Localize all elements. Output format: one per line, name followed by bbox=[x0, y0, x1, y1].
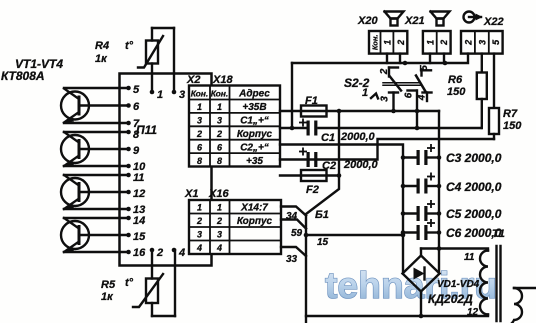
svg-text:2000,0: 2000,0 bbox=[343, 159, 379, 171]
capacitor C3 bbox=[403, 156, 439, 158]
pin 1 bbox=[150, 89, 163, 101]
svg-text:X20: X20 bbox=[357, 15, 378, 27]
pin 6 bbox=[126, 101, 140, 113]
svg-text:С2„+“: С2„+“ bbox=[240, 143, 269, 154]
wire F1 drop to bus B1 bbox=[306, 111, 339, 323]
junction dot contact6 on line A bbox=[415, 109, 420, 114]
svg-text:3: 3 bbox=[477, 40, 487, 45]
svg-text:8: 8 bbox=[133, 129, 140, 141]
svg-text:1: 1 bbox=[197, 102, 202, 112]
junction dot wire15 left bbox=[304, 233, 309, 238]
svg-text:X14:7: X14:7 bbox=[240, 203, 268, 214]
capacitor C1 bbox=[307, 121, 318, 136]
pin 4 bbox=[172, 247, 185, 259]
svg-text:С1„+“: С1„+“ bbox=[240, 116, 269, 127]
pin 12 bbox=[126, 188, 145, 200]
svg-text:2: 2 bbox=[216, 129, 222, 139]
junction dot S2 contact4 on line B bbox=[415, 126, 420, 131]
svg-text:1: 1 bbox=[425, 40, 435, 45]
svg-text:Кон.: Кон. bbox=[191, 89, 209, 99]
wires VT3 to pins 11,12,13 bbox=[64, 175, 129, 209]
capacitor C4 bbox=[403, 185, 439, 187]
pin 8 bbox=[126, 129, 140, 141]
pin 14 bbox=[126, 215, 145, 227]
svg-text:Корпус: Корпус bbox=[237, 216, 273, 227]
pin 2 bbox=[150, 247, 163, 259]
bottom wire to transformer pin 12 bbox=[306, 315, 488, 317]
svg-text:59: 59 bbox=[291, 228, 303, 239]
wire C2 line C bbox=[280, 139, 494, 160]
svg-text:2: 2 bbox=[156, 247, 163, 259]
plus sign C1 bbox=[299, 119, 307, 127]
pin 7 bbox=[126, 118, 140, 130]
wire +35 line D bbox=[280, 174, 339, 176]
svg-text:С1: С1 bbox=[321, 132, 335, 144]
svg-text:4: 4 bbox=[417, 94, 428, 101]
pin 5 bbox=[126, 84, 140, 96]
plus sign C5 bbox=[427, 200, 435, 208]
wire +35V line A bbox=[280, 110, 439, 112]
svg-text:5: 5 bbox=[419, 65, 430, 71]
svg-text:11: 11 bbox=[133, 172, 144, 184]
svg-text:Кон.: Кон. bbox=[371, 35, 380, 51]
svg-text:3: 3 bbox=[217, 230, 222, 240]
thermistor R4 bbox=[138, 28, 174, 92]
svg-text:12: 12 bbox=[133, 188, 145, 200]
svg-text:2000,0: 2000,0 bbox=[340, 131, 376, 143]
speaker icon X20 bbox=[385, 12, 404, 26]
svg-text:4: 4 bbox=[178, 247, 185, 259]
svg-text:3: 3 bbox=[197, 230, 202, 240]
svg-text:X18: X18 bbox=[212, 74, 233, 86]
svg-text:2: 2 bbox=[196, 129, 202, 139]
plus sign C4 bbox=[427, 173, 435, 181]
svg-text:33: 33 bbox=[286, 254, 298, 265]
svg-text:3: 3 bbox=[197, 116, 202, 126]
svg-text:3: 3 bbox=[380, 96, 391, 102]
svg-text:Б1: Б1 bbox=[315, 209, 329, 221]
svg-text:Кон.: Кон. bbox=[211, 89, 229, 99]
pin 11 bbox=[126, 172, 144, 184]
junction dots C3 bbox=[401, 155, 406, 160]
svg-text:2: 2 bbox=[439, 40, 449, 46]
svg-text:3: 3 bbox=[179, 89, 185, 101]
svg-text:2: 2 bbox=[216, 216, 222, 226]
svg-text:1к: 1к bbox=[95, 53, 108, 65]
wires VT2 to pins 8,9,10 bbox=[64, 132, 129, 166]
pin 9 bbox=[126, 145, 140, 157]
svg-text:12: 12 bbox=[467, 307, 479, 318]
svg-text:1к: 1к bbox=[101, 291, 114, 303]
svg-text:2: 2 bbox=[379, 68, 390, 75]
wire 59 bbox=[281, 220, 306, 229]
svg-text:С5 2000,0: С5 2000,0 bbox=[446, 207, 502, 221]
svg-text:R4: R4 bbox=[95, 40, 109, 52]
junction dots C4 bbox=[401, 184, 406, 189]
speaker icon X21 bbox=[431, 12, 450, 26]
svg-text:X22: X22 bbox=[483, 16, 504, 28]
plus sign C6 bbox=[427, 219, 435, 227]
pin 3 bbox=[172, 89, 185, 101]
svg-text:1: 1 bbox=[362, 87, 368, 99]
plus sign C3 bbox=[427, 144, 435, 152]
svg-text:1: 1 bbox=[217, 102, 222, 112]
pin 13 bbox=[126, 204, 145, 216]
svg-text:+35В: +35В bbox=[242, 102, 266, 113]
svg-text:4: 4 bbox=[196, 243, 202, 253]
svg-text:150: 150 bbox=[503, 120, 522, 132]
wires VT4 to pins 14,15,16 bbox=[64, 218, 129, 252]
svg-text:3: 3 bbox=[217, 116, 222, 126]
wires VT1 to pins 5,6,7 bbox=[64, 88, 129, 123]
transistor VT2 bbox=[61, 132, 89, 167]
svg-text:15: 15 bbox=[133, 231, 146, 243]
svg-text:9: 9 bbox=[133, 145, 140, 157]
fuse F2 bbox=[301, 170, 327, 181]
svg-text:X21: X21 bbox=[404, 15, 425, 27]
speaker common bus bbox=[292, 54, 468, 128]
svg-text:4: 4 bbox=[216, 243, 222, 253]
svg-text:R7: R7 bbox=[503, 108, 518, 120]
connector table X1/X16 bbox=[189, 200, 281, 254]
capacitor C6 bbox=[403, 231, 439, 233]
resistor R6 bbox=[477, 54, 487, 128]
svg-text:П11: П11 bbox=[136, 123, 157, 137]
capacitor C5 bbox=[403, 212, 439, 214]
transformer core bbox=[497, 246, 501, 321]
connector block X22 bbox=[461, 31, 503, 54]
junction dot S2 contact3 on line A bbox=[391, 109, 396, 114]
switch S2-2 mechanical link bbox=[383, 83, 420, 85]
svg-text:Т1: Т1 bbox=[492, 228, 505, 240]
connector stubs to bus bbox=[387, 54, 444, 63]
connector table X2/X18 bbox=[189, 86, 280, 168]
junction dot right bus crossing bbox=[437, 246, 442, 251]
transistor VT1 bbox=[61, 89, 89, 124]
junction dot bridge bottom bbox=[419, 314, 424, 319]
junction dot speaker bus on line B bbox=[290, 126, 295, 131]
svg-text:8: 8 bbox=[217, 156, 222, 166]
svg-text:VD1-VD4: VD1-VD4 bbox=[437, 279, 480, 290]
svg-text:F2: F2 bbox=[306, 184, 319, 196]
svg-text:6: 6 bbox=[133, 101, 140, 113]
svg-text:F1: F1 bbox=[305, 95, 318, 107]
connector block X21 bbox=[423, 31, 451, 54]
wire 34 bbox=[281, 207, 306, 216]
junction dot wire15 right bbox=[401, 233, 406, 238]
svg-text:Адрес: Адрес bbox=[238, 89, 270, 100]
svg-text:5: 5 bbox=[133, 84, 140, 96]
svg-text:16: 16 bbox=[133, 247, 146, 259]
fuse F1 bbox=[301, 106, 327, 117]
svg-text:1: 1 bbox=[383, 40, 393, 45]
junction dot bus b bbox=[443, 61, 448, 66]
svg-text:R5: R5 bbox=[101, 279, 116, 291]
capacitor C2 bbox=[307, 152, 318, 167]
transistor VT4 bbox=[61, 218, 89, 253]
svg-text:t°: t° bbox=[125, 40, 134, 52]
plus sign C2 bbox=[299, 148, 307, 156]
svg-text:6: 6 bbox=[404, 92, 415, 98]
bridge rectifier VD1-VD4 bbox=[403, 249, 440, 317]
svg-text:С3 2000,0: С3 2000,0 bbox=[446, 151, 502, 165]
junction dot bus a bbox=[403, 61, 408, 66]
+35 right bus bbox=[438, 111, 440, 274]
svg-text:2: 2 bbox=[464, 40, 474, 46]
svg-text:1: 1 bbox=[217, 203, 222, 213]
wire bridge top to transformer pin 11 bbox=[421, 249, 488, 251]
transistor VT3 bbox=[61, 175, 89, 210]
svg-text:14: 14 bbox=[133, 215, 145, 227]
svg-text:R6: R6 bbox=[448, 74, 463, 86]
headphone icon X22 bbox=[464, 12, 483, 23]
svg-text:X2: X2 bbox=[186, 74, 200, 86]
thermistor R5 bbox=[133, 250, 175, 316]
svg-text:Корпус: Корпус bbox=[237, 129, 273, 140]
switch S2-2 pole 1 bbox=[371, 68, 401, 112]
svg-text:15: 15 bbox=[317, 237, 329, 248]
junction dots C5 bbox=[401, 211, 406, 216]
svg-text:+35: +35 bbox=[246, 156, 263, 167]
junction dots C6 bbox=[401, 230, 406, 235]
pin 16 bbox=[126, 247, 146, 259]
box P11 bbox=[120, 74, 212, 266]
diode symbol inside bridge bbox=[414, 268, 425, 280]
svg-text:1: 1 bbox=[197, 203, 202, 213]
svg-text:КТ808А: КТ808А bbox=[1, 69, 45, 83]
junction dot F1 drop bbox=[337, 109, 342, 114]
svg-text:t°: t° bbox=[125, 277, 134, 289]
resistor R7 bbox=[489, 54, 499, 139]
svg-text:X1: X1 bbox=[184, 188, 198, 200]
wire C1 line B bbox=[280, 127, 482, 129]
svg-text:11: 11 bbox=[464, 252, 475, 263]
transformer T1 primary winding bbox=[480, 251, 488, 315]
wire 33 bbox=[281, 247, 306, 256]
wire 15 bbox=[306, 234, 403, 236]
svg-text:150: 150 bbox=[447, 86, 466, 98]
pin 10 bbox=[126, 161, 146, 173]
svg-text:X16: X16 bbox=[208, 188, 229, 200]
svg-text:С4 2000,0: С4 2000,0 bbox=[446, 180, 502, 194]
svg-text:2: 2 bbox=[196, 216, 202, 226]
transformer T1 secondary winding bbox=[512, 288, 536, 323]
wire Korpus line G bbox=[280, 145, 403, 274]
svg-text:КД202Д: КД202Д bbox=[428, 292, 473, 306]
pin 15 bbox=[126, 231, 146, 243]
switch S2-2 pole 2 bbox=[408, 70, 432, 128]
svg-text:8: 8 bbox=[197, 156, 202, 166]
junction dot F2 join bbox=[337, 173, 342, 178]
svg-text:2: 2 bbox=[396, 40, 406, 46]
svg-text:1: 1 bbox=[157, 89, 163, 101]
connector block X20 bbox=[369, 31, 407, 54]
